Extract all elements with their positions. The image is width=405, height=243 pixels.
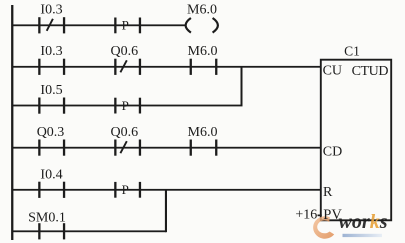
svg-text:SM0.1: SM0.1 bbox=[28, 210, 66, 225]
wire PV input stub bbox=[318, 215, 322, 217]
contact P (positive edge) rung5 bbox=[114, 182, 141, 198]
svg-text:I0.3: I0.3 bbox=[40, 3, 62, 18]
watermark blue bar bbox=[343, 234, 383, 237]
contact Q0.6 (NC) rung4 bbox=[114, 140, 141, 156]
svg-text:+16: +16 bbox=[295, 208, 317, 223]
svg-text:M6.0: M6.0 bbox=[187, 3, 217, 18]
wire rung3 rail to junction bbox=[12, 105, 243, 107]
coil M6.0 bbox=[186, 18, 218, 33]
contact M6.0 (NO) rung2 bbox=[190, 59, 218, 75]
contact Q0.3 (NO) rung4 bbox=[38, 140, 65, 156]
wire junction rung3 up to rung2 bbox=[241, 67, 243, 106]
wire rung6 rail to junction bbox=[12, 230, 166, 232]
svg-text:CTUD: CTUD bbox=[352, 64, 389, 79]
svg-text:C1: C1 bbox=[344, 43, 360, 58]
contact P (positive edge) rung3 bbox=[114, 98, 141, 114]
svg-text:P: P bbox=[122, 182, 129, 197]
left power rail bbox=[11, 5, 13, 240]
svg-text:I0.3: I0.3 bbox=[40, 44, 62, 59]
svg-text:P: P bbox=[122, 18, 129, 33]
svg-text:CU: CU bbox=[323, 64, 342, 79]
wire rung2 rail to counter CU input bbox=[12, 66, 321, 68]
svg-text:I0.4: I0.4 bbox=[40, 168, 62, 183]
contact Q0.6 (NC) rung2 bbox=[114, 59, 141, 75]
svg-text:Q0.6: Q0.6 bbox=[110, 125, 138, 140]
svg-text:M6.0: M6.0 bbox=[188, 44, 218, 59]
svg-text:M6.0: M6.0 bbox=[188, 125, 218, 140]
watermark e-works crescent bbox=[313, 216, 334, 238]
contact I0.3 (NO) rung2 bbox=[38, 59, 65, 75]
contact P (positive edge) rung1 bbox=[114, 18, 141, 34]
svg-text:Q0.6: Q0.6 bbox=[110, 44, 138, 59]
contact I0.3 (NC) rung1 bbox=[38, 17, 65, 33]
wire junction rung6 up to rung5 bbox=[165, 190, 167, 232]
svg-text:Q0.3: Q0.3 bbox=[37, 125, 65, 140]
svg-text:I0.5: I0.5 bbox=[40, 83, 62, 98]
contact I0.4 (NO) rung5 bbox=[38, 182, 65, 198]
contact SM0.1 (NO) rung6 bbox=[38, 223, 65, 239]
contact I0.5 (NO) rung3 bbox=[38, 98, 65, 114]
svg-text:R: R bbox=[323, 185, 333, 200]
counter U1 block body C1 CTUD bbox=[321, 60, 391, 221]
wire rung4 rail to counter CD input bbox=[12, 147, 321, 149]
svg-text:CD: CD bbox=[323, 144, 342, 159]
wire rung1 rail to coil bbox=[12, 24, 187, 26]
svg-text:P: P bbox=[122, 98, 129, 113]
wire rung5 rail to counter R input bbox=[12, 189, 321, 191]
contact M6.0 (NO) rung4 bbox=[190, 140, 218, 156]
svg-text:works: works bbox=[339, 211, 388, 233]
